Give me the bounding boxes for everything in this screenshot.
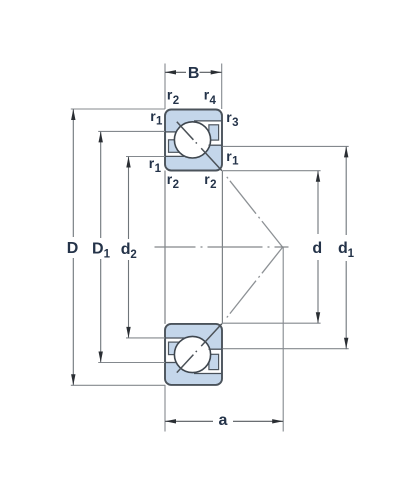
D dimension <box>71 108 165 110</box>
svg-text:d: d <box>338 240 348 257</box>
d2 dimension <box>126 156 165 158</box>
svg-text:B: B <box>188 65 200 82</box>
svg-text:D: D <box>92 240 104 257</box>
bore extension verticals between bearings <box>164 171 166 324</box>
svg-text:D: D <box>67 240 79 257</box>
svg-text:1: 1 <box>156 116 163 128</box>
B dimension <box>164 64 166 110</box>
left bore vertical below bottom bearing (a ext) <box>164 385 166 432</box>
svg-text:2: 2 <box>130 249 136 261</box>
top bearing section <box>165 110 283 248</box>
svg-text:d: d <box>312 240 322 257</box>
svg-text:1: 1 <box>348 248 355 260</box>
svg-text:1: 1 <box>155 163 162 175</box>
d1 dimension <box>223 145 349 147</box>
svg-text:1: 1 <box>232 156 239 168</box>
a dimension <box>165 420 213 422</box>
svg-text:4: 4 <box>210 95 217 107</box>
horizontal centerline dash-dot <box>155 246 289 248</box>
svg-text:3: 3 <box>232 117 238 129</box>
D1 dimension <box>98 130 165 132</box>
svg-text:d: d <box>121 241 131 258</box>
a right extension vertical from apex <box>282 247 284 432</box>
bottom bearing section (mirror about y=247.2) <box>165 247 283 385</box>
svg-text:2: 2 <box>173 95 179 107</box>
d dimension <box>223 170 321 172</box>
svg-text:2: 2 <box>173 179 179 191</box>
svg-text:a: a <box>219 412 228 429</box>
svg-text:1: 1 <box>104 249 111 261</box>
svg-text:2: 2 <box>210 179 216 191</box>
